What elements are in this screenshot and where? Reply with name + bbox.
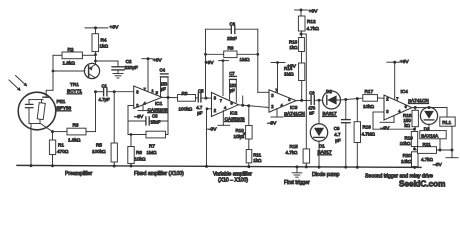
svg-text:6: 6 bbox=[231, 100, 233, 105]
capacitor C1 bbox=[96, 88, 134, 95]
svg-text:R8: R8 bbox=[182, 91, 188, 96]
svg-text:7: 7 bbox=[275, 87, 277, 92]
svg-text:BA317: BA317 bbox=[318, 150, 332, 155]
svg-text:Second trigger and relay drive: Second trigger and relay drive bbox=[365, 173, 433, 179]
svg-text:BA317: BA317 bbox=[323, 111, 337, 116]
transistor TR1 bbox=[84, 63, 99, 78]
op-amp IC3 bbox=[269, 90, 296, 112]
wire IC4 pin3 reference bbox=[373, 112, 415, 129]
svg-text:10kΩ: 10kΩ bbox=[401, 159, 412, 164]
wire IC2 output row bbox=[238, 96, 270, 108]
svg-text:1kΩ: 1kΩ bbox=[253, 158, 262, 163]
wire feedback right vertical to IC3 pin3 bbox=[256, 29, 269, 92]
capacitor C3 bbox=[128, 117, 168, 125]
op-amp IC1 bbox=[134, 86, 162, 109]
svg-text:R5: R5 bbox=[96, 142, 102, 147]
svg-text:10kΩ: 10kΩ bbox=[135, 156, 147, 161]
resistor R20 bbox=[412, 152, 419, 169]
ground symbol (first trigger) bbox=[292, 165, 302, 177]
resistor R9 bbox=[206, 51, 258, 58]
svg-text:Preamplifier: Preamplifier bbox=[65, 171, 92, 177]
svg-text:D1: D1 bbox=[319, 144, 325, 149]
node C1 / R5 bbox=[113, 90, 116, 93]
svg-text:10kΩ: 10kΩ bbox=[363, 104, 375, 109]
svg-text:470Ω: 470Ω bbox=[57, 149, 69, 154]
svg-text:–9V: –9V bbox=[135, 114, 144, 120]
svg-text:BCY71: BCY71 bbox=[67, 89, 82, 94]
resistor R16 bbox=[354, 99, 360, 169]
node pin3 / R18 / R19 bbox=[413, 128, 416, 131]
wire IC2 pin2 to ground bbox=[205, 107, 212, 167]
+9V supply terminal (preamp) bbox=[85, 26, 108, 29]
svg-text:+9V: +9V bbox=[153, 57, 163, 63]
svg-text:CA3520B: CA3520B bbox=[225, 116, 245, 121]
svg-text:R7: R7 bbox=[149, 144, 155, 149]
svg-text:4.7µF: 4.7µF bbox=[99, 97, 110, 102]
wire R2 to base node bbox=[46, 55, 54, 97]
svg-text:4.7kΩ: 4.7kΩ bbox=[421, 157, 434, 162]
svg-text:TR1: TR1 bbox=[70, 82, 79, 87]
svg-text:First trigger: First trigger bbox=[284, 180, 310, 186]
node TR1 collector bbox=[94, 90, 97, 93]
capacitor C6 bbox=[206, 26, 258, 34]
capacitor C8 bbox=[311, 96, 323, 105]
-9V terminal (IC3 pin 4) bbox=[271, 109, 283, 118]
svg-text:R15: R15 bbox=[290, 144, 299, 149]
svg-text:C3: C3 bbox=[152, 113, 158, 118]
wire IC3 output row bbox=[296, 99, 311, 102]
capacitor C9 bbox=[342, 100, 351, 169]
resistor R19 bbox=[411, 132, 417, 151]
svg-text:IC3: IC3 bbox=[290, 105, 298, 110]
svg-text:+9V: +9V bbox=[400, 59, 410, 65]
svg-text:7: 7 bbox=[396, 96, 398, 101]
svg-text:C2: C2 bbox=[126, 59, 132, 64]
svg-text:220µF: 220µF bbox=[125, 65, 139, 70]
svg-text:C4: C4 bbox=[160, 67, 166, 72]
resistor R7 bbox=[128, 98, 168, 138]
svg-text:15nF: 15nF bbox=[151, 119, 161, 124]
svg-text:Diode pump: Diode pump bbox=[312, 172, 340, 178]
svg-text:4.7kΩ: 4.7kΩ bbox=[307, 26, 320, 31]
svg-text:C7: C7 bbox=[229, 71, 235, 76]
svg-text:R9: R9 bbox=[228, 46, 234, 51]
svg-text:+9V: +9V bbox=[309, 9, 319, 15]
op-amp IC4 bbox=[384, 95, 412, 120]
svg-text:7: 7 bbox=[144, 87, 146, 92]
svg-text:4.7MΩ: 4.7MΩ bbox=[362, 131, 376, 136]
svg-text:RL1: RL1 bbox=[442, 120, 451, 126]
svg-text:–9V: –9V bbox=[208, 127, 217, 133]
svg-text:R2: R2 bbox=[68, 47, 74, 52]
wire IC4 output row bbox=[412, 106, 447, 109]
diode D2 bbox=[323, 91, 341, 109]
+9V terminal (IC4 pin 7) bbox=[387, 61, 400, 100]
relay RL1 bbox=[440, 108, 455, 151]
feedback loop IC1: left vertical + pin2 row bbox=[128, 106, 134, 135]
svg-text:(X10 – X100): (X10 – X100) bbox=[218, 177, 248, 183]
resistor R14 (hysteresis) bbox=[299, 63, 305, 100]
capacitor C7 bbox=[230, 76, 237, 102]
svg-text:1MΩ: 1MΩ bbox=[284, 71, 294, 76]
svg-text:1MΩ: 1MΩ bbox=[240, 57, 251, 62]
wire base row bbox=[53, 70, 85, 72]
svg-text:R16: R16 bbox=[363, 124, 372, 129]
-9V terminal (relay) bbox=[446, 150, 458, 158]
svg-text:C5: C5 bbox=[198, 88, 204, 93]
svg-text:+9V: +9V bbox=[205, 60, 215, 66]
svg-text:15nF: 15nF bbox=[227, 36, 237, 41]
svg-text:R3: R3 bbox=[73, 122, 79, 127]
svg-text:C1: C1 bbox=[102, 84, 108, 89]
svg-text:1kΩ: 1kΩ bbox=[100, 44, 109, 49]
ground symbol (C2) bbox=[113, 74, 123, 79]
resistor R1 bbox=[49, 132, 55, 168]
resistor R4 bbox=[92, 28, 99, 52]
resistor R2 bbox=[53, 52, 96, 59]
svg-text:4.7: 4.7 bbox=[196, 105, 203, 110]
resistor R15 bbox=[303, 149, 310, 169]
svg-text:IC4: IC4 bbox=[401, 89, 409, 94]
op-amp IC2 bbox=[212, 93, 239, 117]
svg-text:R13: R13 bbox=[289, 39, 298, 44]
diode D1 bbox=[310, 100, 327, 168]
svg-text:pF: pF bbox=[230, 88, 235, 93]
svg-text:R21: R21 bbox=[423, 142, 432, 147]
svg-text:10kΩ: 10kΩ bbox=[234, 134, 245, 139]
svg-text:R10: R10 bbox=[236, 128, 245, 133]
svg-text:R19: R19 bbox=[405, 135, 414, 140]
svg-text:R6: R6 bbox=[136, 150, 142, 155]
-9V terminal (IC4 pin 4) bbox=[380, 116, 394, 123]
svg-text:5: 5 bbox=[156, 90, 158, 95]
resistor R21 bbox=[415, 147, 454, 154]
wire IC1 output row bbox=[162, 96, 178, 99]
svg-text:1.8kΩ: 1.8kΩ bbox=[68, 137, 81, 142]
svg-text:SeekIC.com: SeekIC.com bbox=[399, 180, 445, 189]
+9V terminal (IC2 pin 7) bbox=[219, 59, 229, 95]
svg-text:–9V: –9V bbox=[268, 120, 277, 126]
photocell PE1 bbox=[18, 92, 56, 165]
svg-text:1: 1 bbox=[152, 88, 154, 93]
svg-text:CA3520B: CA3520B bbox=[148, 107, 168, 112]
svg-text:R11: R11 bbox=[253, 152, 261, 157]
svg-text:µF: µF bbox=[335, 138, 341, 143]
capacitor C5 bbox=[198, 93, 211, 102]
node R1/R3 junction bbox=[51, 130, 54, 133]
svg-text:D2: D2 bbox=[326, 89, 332, 94]
svg-text:µA741CN: µA741CN bbox=[408, 98, 428, 103]
svg-text:pF: pF bbox=[161, 87, 166, 92]
svg-text:–9V: –9V bbox=[433, 162, 442, 168]
svg-text:IC2: IC2 bbox=[230, 111, 238, 116]
svg-text:R12: R12 bbox=[307, 19, 316, 24]
svg-text:–9V: –9V bbox=[381, 126, 390, 132]
-9V terminal (IC2 pin 4) bbox=[218, 111, 230, 126]
svg-text:4.7: 4.7 bbox=[334, 132, 341, 137]
svg-text:6: 6 bbox=[405, 104, 407, 109]
svg-text:PE1: PE1 bbox=[57, 99, 66, 104]
wire R4 to TR1 emitter bbox=[94, 52, 97, 65]
resistor R18 bbox=[412, 108, 418, 130]
wire pump output row bbox=[340, 97, 362, 101]
+9V terminal (IC1 pin 7) bbox=[142, 57, 153, 91]
svg-text:kΩ: kΩ bbox=[404, 123, 410, 128]
node C8 / D1 bbox=[318, 99, 321, 102]
svg-text:1MΩ: 1MΩ bbox=[147, 150, 158, 155]
svg-text:C8: C8 bbox=[309, 91, 315, 96]
svg-text:1kΩ: 1kΩ bbox=[289, 45, 298, 50]
ground rail bbox=[17, 165, 421, 167]
svg-text:C6: C6 bbox=[230, 22, 236, 27]
wire divider to R15 bbox=[305, 34, 307, 149]
resistor R12 bbox=[298, 16, 305, 34]
resistor R3 bbox=[53, 92, 96, 135]
capacitor C4 bbox=[161, 74, 169, 98]
node divider bbox=[300, 33, 307, 36]
svg-text:7: 7 bbox=[220, 98, 222, 103]
svg-text:4.7kΩ: 4.7kΩ bbox=[286, 150, 299, 155]
svg-text:R17: R17 bbox=[365, 89, 374, 94]
svg-text:1.8kΩ: 1.8kΩ bbox=[63, 61, 76, 66]
svg-text:BAX13A: BAX13A bbox=[421, 133, 438, 138]
svg-text:+9V: +9V bbox=[110, 25, 120, 31]
resistor R6 bbox=[128, 133, 134, 167]
svg-text:6: 6 bbox=[288, 97, 290, 102]
+9V terminal (IC3 pin 7) bbox=[271, 61, 285, 93]
light arrows bbox=[9, 76, 27, 92]
svg-text:C9: C9 bbox=[334, 126, 340, 131]
svg-text:R20: R20 bbox=[403, 153, 412, 158]
resistor R13 bbox=[299, 34, 305, 63]
resistor R17 bbox=[363, 95, 384, 102]
-9V terminal (IC1 pin 4) bbox=[138, 105, 150, 111]
svg-text:nF: nF bbox=[309, 110, 314, 115]
node C5/pin3 with feedback riser bbox=[204, 29, 207, 99]
capacitor C2 bbox=[96, 61, 125, 73]
svg-text:100kΩ: 100kΩ bbox=[92, 149, 106, 154]
svg-text:R1: R1 bbox=[58, 143, 64, 148]
svg-text:100kΩ: 100kΩ bbox=[179, 107, 193, 112]
svg-text:BPY88: BPY88 bbox=[57, 106, 72, 111]
svg-text:10kΩ: 10kΩ bbox=[400, 141, 411, 146]
svg-text:µF: µF bbox=[197, 111, 202, 116]
svg-text:Fixed amplifier (X100): Fixed amplifier (X100) bbox=[134, 171, 184, 177]
potentiometer R10 bbox=[240, 106, 252, 140]
svg-text:µA741CN: µA741CN bbox=[284, 111, 304, 116]
resistor R5 bbox=[111, 92, 117, 168]
svg-text:IC1: IC1 bbox=[155, 101, 163, 106]
diode D3 bbox=[420, 107, 437, 130]
node PE1 bottom / ground bbox=[30, 164, 33, 167]
resistor R8 bbox=[178, 95, 199, 102]
svg-text:+9V: +9V bbox=[287, 64, 297, 70]
svg-text:R4: R4 bbox=[101, 38, 107, 43]
+9V terminal (divider top) bbox=[295, 9, 308, 17]
resistor R11 bbox=[246, 139, 252, 168]
